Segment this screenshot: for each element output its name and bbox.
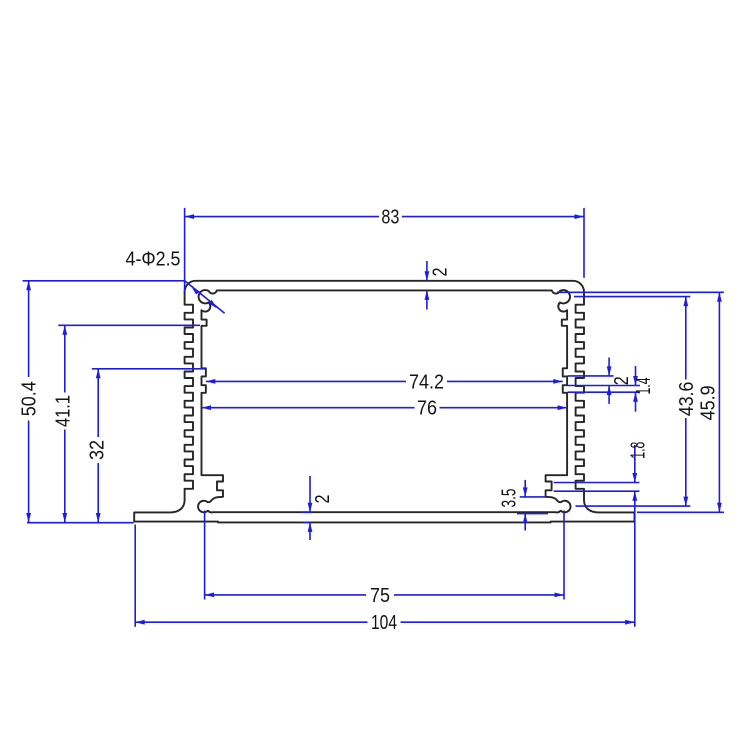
svg-text:75: 75 <box>370 585 390 607</box>
svg-text:41.1: 41.1 <box>53 395 75 427</box>
svg-text:45.9: 45.9 <box>698 385 720 420</box>
svg-text:76: 76 <box>417 398 437 420</box>
svg-text:1.8: 1.8 <box>627 442 649 459</box>
svg-text:50.4: 50.4 <box>19 381 41 416</box>
svg-text:3.5: 3.5 <box>499 489 521 508</box>
svg-text:1.4: 1.4 <box>633 378 655 395</box>
svg-text:2: 2 <box>611 376 633 385</box>
svg-text:83: 83 <box>381 207 399 229</box>
svg-text:2: 2 <box>429 268 451 277</box>
svg-text:2: 2 <box>312 495 334 504</box>
svg-text:104: 104 <box>371 612 397 634</box>
svg-text:43.6: 43.6 <box>676 382 698 417</box>
svg-text:74.2: 74.2 <box>409 371 444 393</box>
svg-text:32: 32 <box>87 440 109 460</box>
svg-text:4-Φ2.5: 4-Φ2.5 <box>126 249 181 271</box>
